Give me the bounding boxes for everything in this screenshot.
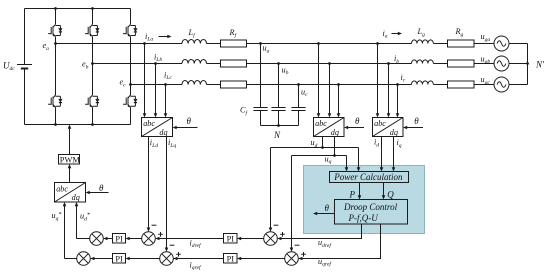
wire iLq feedback [166, 137, 168, 251]
svg-text:abc: abc [143, 119, 155, 128]
capacitor Cf phase c [291, 85, 305, 126]
wire phase c [131, 84, 528, 86]
wire voltage sense c [338, 85, 340, 117]
sign plus udref [280, 232, 285, 237]
arrow iLq into sum [165, 248, 169, 252]
arrow uq into power calc [345, 167, 349, 171]
wire inverter leg b [92, 9, 94, 125]
wire theta output [315, 213, 335, 215]
svg-text:P: P [349, 190, 356, 200]
arrow udref into sum [277, 237, 281, 241]
wire iq output [393, 137, 395, 171]
wire uq output [334, 137, 336, 156]
node voltage tap c [337, 83, 340, 86]
inductor Lf phase c [182, 81, 207, 85]
wire ud distribution [271, 148, 359, 231]
capacitor Cf phase b [271, 64, 285, 126]
battery Udc [17, 65, 32, 69]
resistor Rg phase b [448, 60, 475, 67]
transistor Q4 lower [48, 95, 62, 107]
arrow ia direction [392, 32, 403, 36]
svg-text:Lf: Lf [188, 28, 197, 39]
svg-text:uc: uc [301, 87, 308, 98]
node ud junction [321, 146, 324, 149]
arrow into PI vd [237, 237, 241, 241]
node ub tap [277, 62, 280, 65]
arrow id into power calc [380, 167, 384, 171]
arrow ua into transform [317, 113, 321, 117]
svg-text:PI: PI [115, 234, 123, 243]
arrow into bottom bus [68, 125, 72, 129]
node ic tap [396, 83, 399, 86]
arrow into sum d [103, 237, 107, 241]
svg-text:ic: ic [401, 73, 406, 84]
resistor Rf phase c [221, 81, 247, 88]
inductor Lg phase c [412, 81, 434, 85]
svg-text:iLq: iLq [168, 138, 176, 149]
wire Q [383, 183, 385, 199]
wire voltage sense b [329, 64, 331, 117]
transistor Q5 lower [85, 95, 99, 107]
node uq junction [333, 154, 336, 157]
svg-text:iqref: iqref [190, 260, 203, 271]
source ugc [494, 77, 509, 92]
inductor Lg phase a [412, 40, 434, 44]
arrow theta output [313, 212, 317, 216]
wire sum to PI vq [239, 258, 285, 260]
svg-text:Lg: Lg [417, 27, 426, 38]
arrow into sum q [90, 257, 94, 261]
svg-text:PI: PI [227, 234, 235, 243]
wire iLb sense [155, 64, 157, 117]
transistor Q3 upper [123, 24, 137, 36]
svg-text:Rf: Rf [229, 28, 238, 39]
wire ud output [322, 137, 324, 148]
wire iLd feedback [148, 137, 150, 231]
svg-text:abc: abc [56, 185, 68, 194]
summing junction output d [90, 232, 104, 246]
capacitor Cf phase a [253, 44, 267, 126]
arrow into PI cd [126, 237, 130, 241]
PI controller vq [224, 254, 238, 264]
svg-text:ub: ub [282, 65, 289, 76]
PI controller cq [113, 254, 126, 264]
wire theta stub modulator [87, 192, 108, 194]
wire inverter leg c [130, 9, 132, 125]
wire DC bottom bus [25, 124, 131, 126]
sign minus iLq [170, 244, 175, 246]
svg-text:PI: PI [227, 254, 235, 263]
wire id output [381, 137, 383, 171]
wire uq distribution [292, 156, 347, 251]
node grid neutral [526, 62, 529, 65]
node iLa tap [143, 42, 146, 45]
sign plus uqref [301, 252, 306, 257]
wire dq-abc to PWM [69, 166, 71, 183]
node ia tap [376, 42, 379, 45]
wire sum to PI vd [239, 238, 264, 240]
svg-text:uq*: uq* [52, 211, 62, 222]
arrow iLa into transform [143, 113, 147, 117]
arrow into PI vq [237, 257, 241, 261]
wire udref [278, 224, 362, 239]
node voltage tap a [317, 42, 320, 45]
node ib tap [387, 62, 390, 65]
node capacitor neutral [277, 124, 280, 127]
power calculation block [330, 172, 409, 183]
transform block abc-dq grid current [373, 118, 404, 137]
resistor Rg phase c [448, 81, 475, 88]
inductor Lg phase b [412, 60, 434, 64]
sign plus iqref [176, 252, 181, 257]
arrow uqstar into modulator [63, 202, 67, 206]
node top bus leg b [91, 7, 94, 10]
svg-text:iLa: iLa [145, 32, 153, 43]
arrow ud into power calc [357, 167, 361, 171]
svg-text:id: id [374, 138, 379, 149]
arrow ib into transform [387, 113, 391, 117]
svg-text:PI: PI [115, 254, 123, 263]
wire PWM to inverter [69, 126, 71, 155]
wire DC top bus [25, 8, 131, 10]
arrow ub into transform [328, 113, 332, 117]
node top bus leg a [54, 7, 57, 10]
svg-text:θ: θ [325, 203, 330, 213]
arrow iLa direction [159, 35, 172, 39]
svg-text:θ: θ [99, 183, 104, 193]
arrow uc into transform [337, 113, 341, 117]
transform block abc-dq voltage [314, 118, 345, 137]
PWM block [59, 155, 81, 165]
resistor Rf phase b [221, 60, 247, 67]
svg-text:iLc: iLc [164, 70, 172, 81]
resistor Rg phase a [448, 40, 475, 47]
svg-text:dq: dq [159, 128, 167, 137]
arrow iqref into sum [173, 257, 177, 261]
arrow theta into iL transform [173, 126, 177, 130]
source ugb [494, 56, 509, 71]
node iLb tap [154, 62, 157, 65]
PI controller cd [113, 234, 126, 244]
svg-text:ua: ua [263, 44, 270, 55]
sign plus idref [158, 232, 163, 237]
wire ic sense [397, 85, 399, 117]
svg-text:Cf: Cf [240, 106, 248, 117]
inductor Lf phase a [182, 40, 207, 44]
arrow iq into power calc [392, 167, 396, 171]
wire uqstar [65, 204, 77, 259]
summing junction current d [142, 232, 156, 246]
wire theta stub voltage transform [346, 127, 364, 129]
arrow ia into transform [376, 113, 380, 117]
node ua tap [259, 42, 262, 45]
wire voltage sense a [318, 44, 320, 117]
node uc tap [297, 83, 300, 86]
sign minus uq [295, 244, 300, 246]
transistor Q1 upper [48, 24, 62, 36]
node iLc tap [164, 83, 167, 86]
node ea [54, 42, 57, 45]
arrow iLb into transform [154, 113, 158, 117]
arrow idref into sum [155, 237, 159, 241]
node bottom bus leg a [54, 123, 57, 126]
wire PI to sum d [104, 238, 113, 240]
svg-text:dq: dq [72, 193, 80, 202]
summing junction output q [77, 252, 91, 266]
wire udstar [77, 204, 90, 239]
transform block dq-abc modulator [55, 183, 86, 203]
arrow theta into grid transform [403, 126, 407, 130]
wire iLa sense [144, 44, 146, 117]
wire PI to sum q [91, 258, 113, 260]
shaded control region [304, 166, 425, 234]
svg-text:Droop Control: Droop Control [343, 202, 398, 212]
arrow ic into transform [396, 113, 400, 117]
wire sum to PI cq [127, 258, 160, 260]
wire iLc sense [165, 85, 167, 117]
sign minus ud [274, 224, 279, 226]
wire grid neutral bus [527, 44, 529, 85]
svg-text:ud*: ud* [80, 212, 90, 223]
arrow uqref into sum [298, 257, 302, 261]
source uga [494, 36, 509, 51]
arrow udstar into modulator [75, 202, 79, 206]
svg-text:Q: Q [387, 190, 394, 200]
arrow iLd into sum [147, 228, 151, 232]
svg-text:abc: abc [374, 119, 386, 128]
summing junction voltage q [285, 252, 299, 266]
PI controller vd [224, 234, 238, 244]
sign minus iLd [152, 224, 157, 226]
wire theta stub iL transform [174, 127, 197, 129]
wire inverter leg a [55, 9, 57, 125]
svg-text:Rg: Rg [455, 27, 464, 38]
svg-text:θ: θ [187, 116, 192, 126]
summing junction current q [160, 252, 174, 266]
svg-text:N′: N′ [535, 60, 545, 70]
arrow Q into droop [382, 195, 386, 199]
transform block abc-dq inductor current [142, 118, 173, 137]
svg-text:iq: iq [397, 138, 402, 149]
svg-text:eb: eb [82, 60, 89, 71]
wire ib sense [388, 64, 390, 117]
arrow iLc into transform [164, 113, 168, 117]
wire phase a [56, 43, 528, 45]
arrow theta into modulator [86, 191, 90, 195]
arrow uq feedback into sum [290, 248, 294, 252]
svg-text:dq: dq [390, 128, 398, 137]
wire capacitor neutral bus [261, 125, 299, 127]
arrow into PWM [68, 164, 72, 168]
wire DC left rail [24, 9, 26, 125]
summing junction voltage d [264, 232, 278, 246]
wire iqref [174, 258, 224, 260]
droop control block [335, 200, 408, 225]
node eb [91, 62, 94, 65]
svg-text:abc: abc [315, 119, 327, 128]
svg-text:ea: ea [43, 41, 50, 52]
svg-text:ia: ia [383, 29, 388, 40]
arrow into PI cq [126, 257, 130, 261]
transistor Q2 upper [85, 24, 99, 36]
arrow ud feedback into sum [269, 228, 273, 232]
svg-text:P-f,Q-U: P-f,Q-U [348, 213, 379, 223]
wire phase b [93, 63, 528, 65]
node ec [129, 83, 132, 86]
svg-text:PWM: PWM [60, 156, 81, 165]
svg-text:θ: θ [414, 116, 419, 126]
wire sum to PI cd [127, 238, 142, 240]
svg-text:N: N [273, 130, 281, 140]
wire P [359, 183, 361, 199]
svg-text:iLd: iLd [150, 138, 158, 149]
node bottom bus leg b [91, 123, 94, 126]
svg-text:Power Calculation: Power Calculation [333, 172, 403, 182]
node voltage tap b [328, 62, 331, 65]
svg-text:udref: udref [318, 238, 332, 249]
wire uqref [299, 224, 381, 259]
svg-text:dq: dq [331, 128, 339, 137]
arrow theta into voltage transform [344, 126, 348, 130]
arrow P into droop [358, 195, 362, 199]
svg-text:θ: θ [355, 116, 360, 126]
inductor Lf phase b [182, 60, 207, 64]
resistor Rf phase a [221, 40, 247, 47]
wire idref [156, 238, 224, 240]
svg-text:ec: ec [120, 78, 127, 89]
wire theta stub grid transform [405, 127, 423, 129]
transistor Q6 lower [123, 95, 137, 107]
svg-text:uga: uga [481, 32, 491, 43]
wire ia sense [377, 44, 379, 117]
svg-text:idref: idref [190, 238, 203, 249]
svg-text:iLb: iLb [154, 52, 162, 63]
svg-text:Udc: Udc [3, 60, 15, 72]
